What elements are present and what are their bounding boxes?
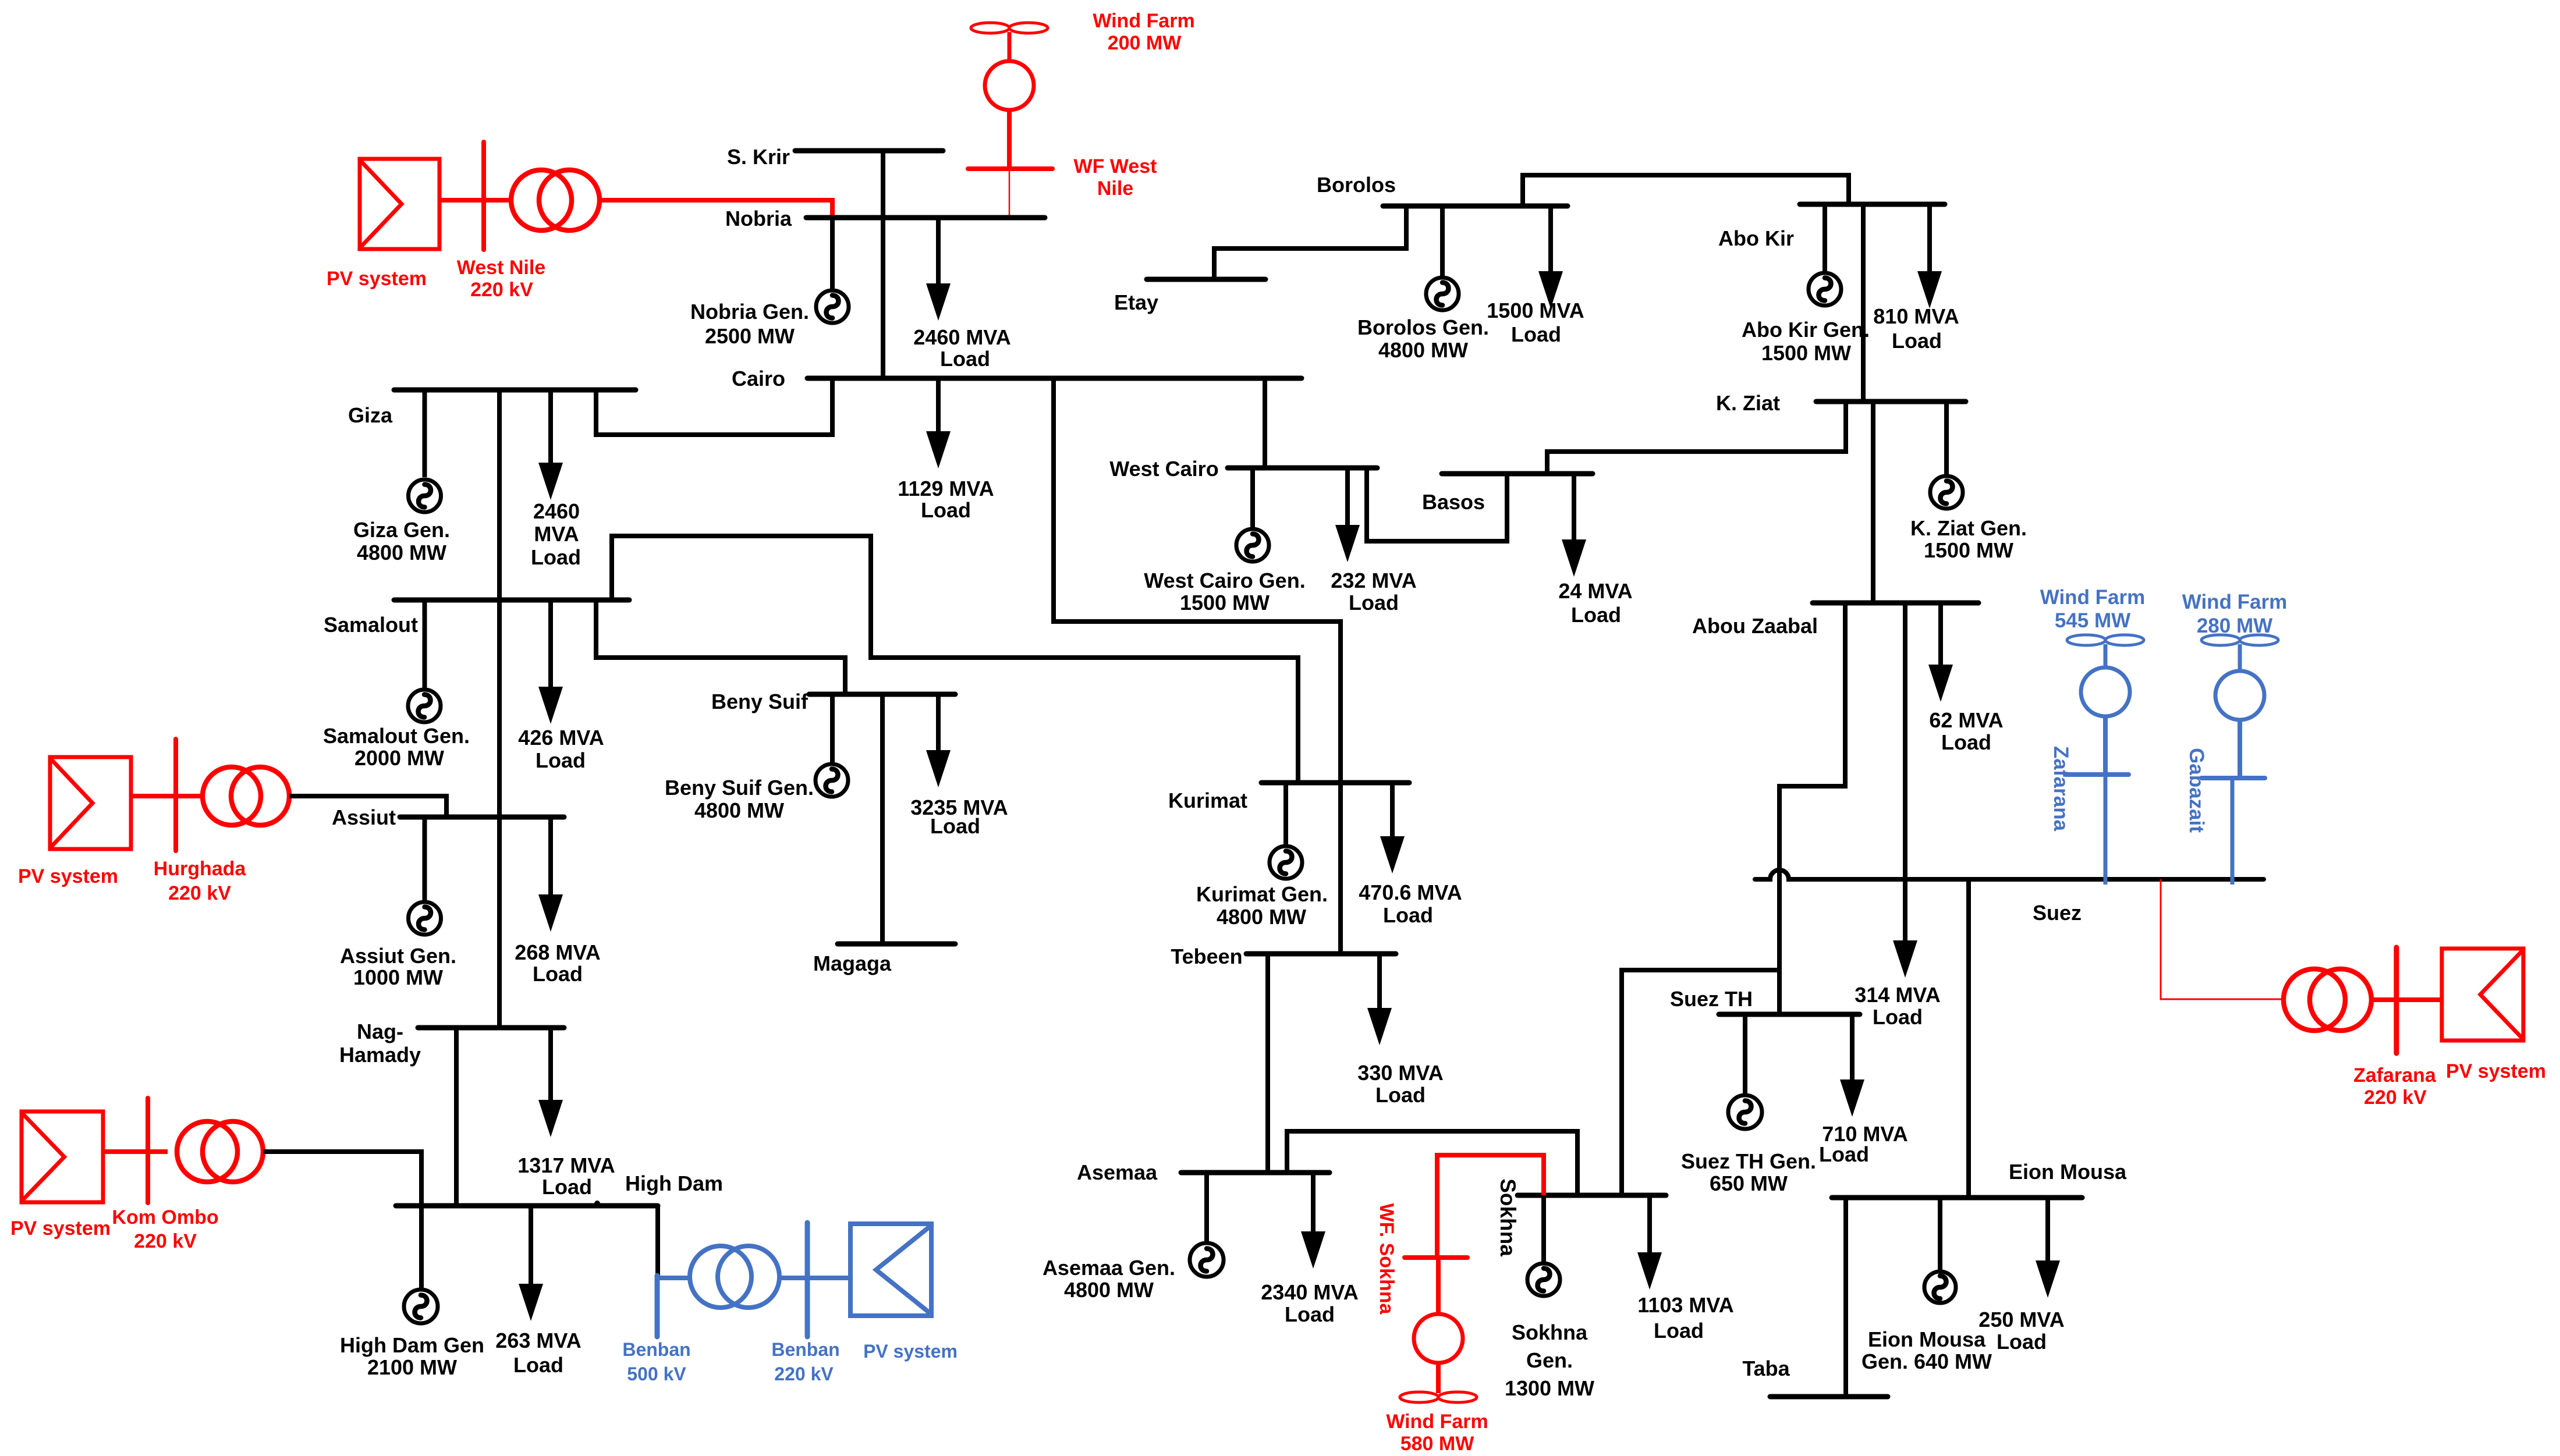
wire Zafarana to Suez bus xyxy=(2104,775,2108,885)
load arrow 2340 MVA (Asemaa) xyxy=(1301,1173,1325,1269)
svg-text:200 MW: 200 MW xyxy=(1108,32,1182,54)
svg-text:2460 MVA: 2460 MVA xyxy=(913,325,1010,349)
bus S. Krir xyxy=(795,148,943,154)
bus Suez xyxy=(1755,870,2264,879)
svg-text:Nag-: Nag- xyxy=(357,1020,403,1043)
load arrow 3235 MVA (Beny Suif) xyxy=(926,694,951,787)
wire High Dam bus to Benban xyxy=(655,1206,660,1277)
generator Suez TH Gen. xyxy=(1728,1095,1762,1129)
svg-text:2000 MW: 2000 MW xyxy=(354,746,444,770)
svg-text:220 kV: 220 kV xyxy=(470,279,533,301)
svg-text:Load: Load xyxy=(1819,1142,1869,1166)
svg-text:263 MVA: 263 MVA xyxy=(495,1329,581,1352)
transformer Hurghada xyxy=(203,767,289,825)
bus Kurimat xyxy=(1261,780,1409,786)
load arrow 1317 MVA (Nag-Hamady) xyxy=(538,1028,563,1137)
svg-text:2500 MW: 2500 MW xyxy=(705,324,795,348)
svg-text:Borolos: Borolos xyxy=(1317,173,1396,197)
load arrow 314 MVA (to Suez) xyxy=(1893,603,1917,978)
load arrow 470.6 MVA (Kurimat) xyxy=(1380,783,1405,873)
svg-text:Zafarana: Zafarana xyxy=(2050,746,2072,831)
generator Kurimat Gen. xyxy=(1270,846,1302,879)
bus Abou Zaabal xyxy=(1813,601,1978,606)
svg-text:Borolos Gen.: Borolos Gen. xyxy=(1357,315,1489,339)
load arrow 250 MVA (Eion Mousa) xyxy=(2036,1198,2060,1298)
svg-text:Abou Zaabal: Abou Zaabal xyxy=(1692,614,1818,638)
svg-text:Cairo: Cairo xyxy=(732,367,785,390)
svg-text:Etay: Etay xyxy=(1114,290,1158,314)
svg-text:330 MVA: 330 MVA xyxy=(1357,1061,1443,1085)
svg-text:Assiut: Assiut xyxy=(332,805,396,829)
svg-text:Taba: Taba xyxy=(1742,1356,1790,1380)
svg-text:Hamady: Hamady xyxy=(339,1043,421,1067)
bus Zafarana 220 kV xyxy=(2394,947,2399,1053)
generator Beny Suif Gen. xyxy=(815,764,848,797)
svg-text:Nobria Gen.: Nobria Gen. xyxy=(690,300,809,324)
generator Assiut Gen. xyxy=(409,902,441,935)
svg-text:1500 MW: 1500 MW xyxy=(1761,341,1851,365)
svg-text:4800 MW: 4800 MW xyxy=(357,541,446,564)
load arrow 330 MVA (Tebeen) xyxy=(1367,954,1392,1045)
svg-text:Nile: Nile xyxy=(1097,177,1133,200)
svg-text:Load: Load xyxy=(1892,329,1942,353)
svg-text:314 MVA: 314 MVA xyxy=(1855,983,1940,1007)
svg-text:Load: Load xyxy=(1511,322,1561,346)
transformer West Nile xyxy=(511,170,600,230)
wire Kurimat bus to Kurimat Gen. xyxy=(1283,783,1288,847)
svg-text:Benban: Benban xyxy=(622,1339,690,1360)
svg-text:West Cairo: West Cairo xyxy=(1109,457,1218,481)
wire Suez to Zafarana PV (thin red) xyxy=(2161,879,2283,999)
svg-text:Load: Load xyxy=(1383,903,1433,927)
generator West Cairo Gen. xyxy=(1236,529,1269,562)
generator K. Ziat Gen. xyxy=(1930,476,1963,509)
svg-text:Suez TH: Suez TH xyxy=(1670,987,1753,1011)
svg-text:Load: Load xyxy=(1349,591,1399,615)
svg-text:Wind Farm: Wind Farm xyxy=(2040,586,2146,609)
bus Suez TH xyxy=(1719,1012,1860,1017)
svg-text:Load: Load xyxy=(513,1353,563,1377)
svg-text:Gen. 640 MW: Gen. 640 MW xyxy=(1862,1350,1992,1373)
svg-text:24 MVA: 24 MVA xyxy=(1558,579,1632,603)
bus Samalout xyxy=(394,598,629,603)
wire K. Ziat to Basos xyxy=(1547,402,1846,474)
bus Asemaa xyxy=(1181,1170,1329,1176)
svg-text:High Dam Gen: High Dam Gen xyxy=(340,1333,484,1357)
wire Benban transformer to PV xyxy=(780,1276,850,1280)
svg-text:Load: Load xyxy=(1873,1005,1923,1029)
svg-text:650 MW: 650 MW xyxy=(1710,1171,1788,1195)
wire K. Ziat to Abou Zaabal xyxy=(1871,402,1875,603)
svg-text:1300 MW: 1300 MW xyxy=(1505,1376,1594,1400)
wire Borolos to Etay xyxy=(1214,206,1406,279)
bus Benban 500 kV xyxy=(655,1276,660,1337)
svg-text:Eion Mousa: Eion Mousa xyxy=(2009,1160,2127,1184)
wire Cairo to Giza bus xyxy=(596,378,832,435)
svg-text:Beny Suif: Beny Suif xyxy=(711,690,809,713)
wire junction Suez TH drop xyxy=(1777,970,1782,1014)
svg-text:Wind Farm: Wind Farm xyxy=(1386,1411,1488,1433)
svg-text:4800 MW: 4800 MW xyxy=(1064,1278,1154,1302)
svg-text:WF. Sokhna: WF. Sokhna xyxy=(1375,1203,1398,1315)
bus Eion Mousa xyxy=(1832,1195,2082,1201)
svg-text:Gabazait: Gabazait xyxy=(2185,748,2208,833)
svg-text:Load: Load xyxy=(1375,1083,1426,1107)
svg-text:500 kV: 500 kV xyxy=(627,1363,686,1384)
wire Abo Kir bus to Abo Kir Gen. xyxy=(1823,204,1827,273)
svg-text:K. Ziat Gen.: K. Ziat Gen. xyxy=(1910,516,2027,540)
wire Asemaa to Sokhna xyxy=(1287,1131,1577,1195)
bus Kom Ombo 220 kV xyxy=(146,1098,150,1203)
wire PV to West Nile bus xyxy=(439,198,511,203)
wire Eion Mousa to Taba xyxy=(1843,1198,1848,1397)
wire Samalout lower to Beny Suif xyxy=(596,600,845,694)
wire Borolos to Abo Kir (top) xyxy=(1523,175,1849,206)
svg-text:Magaga: Magaga xyxy=(813,951,892,975)
svg-text:Wind Farm: Wind Farm xyxy=(1093,10,1194,32)
svg-text:Asemaa: Asemaa xyxy=(1077,1160,1158,1184)
wire WF Sokhna to Sokhna bus xyxy=(1437,1155,1544,1258)
generator Borolos Gen. xyxy=(1426,278,1459,310)
bus West Nile 220 kV xyxy=(481,142,486,250)
svg-text:Load: Load xyxy=(1654,1319,1704,1343)
wire WF West Nile to Nobria bus (thin) xyxy=(1009,171,1010,219)
wire Cairo to Kurimat xyxy=(1054,378,1341,954)
svg-text:Load: Load xyxy=(531,545,581,569)
svg-text:Eion Mousa: Eion Mousa xyxy=(1868,1327,1986,1351)
wire Kom Ombo PV to bus xyxy=(103,1149,168,1154)
bus Etay xyxy=(1147,277,1265,282)
load arrow 2460 MVA (Giza) xyxy=(538,390,563,500)
wire Suez to Eion Mousa xyxy=(1966,879,1971,1198)
load arrow 1500 MVA (Borolos) xyxy=(1538,206,1563,308)
svg-text:470.6 MVA: 470.6 MVA xyxy=(1359,880,1462,904)
load arrow 268 MVA (Assiut) xyxy=(538,817,563,932)
svg-text:Suez TH Gen.: Suez TH Gen. xyxy=(1681,1149,1816,1173)
svg-text:Samalout: Samalout xyxy=(324,613,418,637)
PV system (Kom Ombo) inverter block xyxy=(22,1111,103,1202)
wire Beny Suif bus to Beny Suif Gen. xyxy=(830,694,835,764)
svg-text:2460: 2460 xyxy=(533,499,580,523)
svg-text:4800 MW: 4800 MW xyxy=(694,798,784,822)
svg-text:Abo Kir Gen.: Abo Kir Gen. xyxy=(1742,318,1870,342)
wire Benban 500kV bus to transformer xyxy=(657,1276,689,1280)
wire Sokhna bus to Sokhna Gen. xyxy=(1541,1195,1546,1263)
svg-text:Load: Load xyxy=(1571,603,1621,627)
load arrow 2460 MVA (Nobria) xyxy=(926,218,951,321)
svg-text:PV system: PV system xyxy=(863,1341,958,1362)
svg-text:Load: Load xyxy=(1997,1330,2047,1354)
wire Borolos bus to Borolos Gen. xyxy=(1440,206,1445,278)
svg-text:PV system: PV system xyxy=(327,268,427,290)
svg-text:232 MVA: 232 MVA xyxy=(1331,569,1416,592)
svg-text:S. Krir: S. Krir xyxy=(727,145,790,169)
bus Giza xyxy=(394,388,636,393)
svg-text:Beny Suif Gen.: Beny Suif Gen. xyxy=(665,776,814,800)
load arrow 710 MVA (Suez TH) xyxy=(1840,1014,1864,1117)
wire Asemaa bus to Asemaa Gen. xyxy=(1204,1173,1209,1243)
wire Abo Kir to K. Ziat xyxy=(1861,204,1866,402)
svg-text:West Nile: West Nile xyxy=(457,257,545,279)
wind farm Gabazait xyxy=(2201,635,2278,778)
generator Samalout Gen. xyxy=(408,690,441,722)
bus Benban 220 kV xyxy=(805,1223,810,1337)
wire K. Ziat bus to K. Ziat Gen. xyxy=(1944,402,1949,476)
svg-text:220 kV: 220 kV xyxy=(774,1363,834,1384)
load arrow 1103 MVA (Sokhna) xyxy=(1637,1195,1662,1290)
PV system (Hurghada) inverter block xyxy=(50,757,131,849)
svg-text:545 MW: 545 MW xyxy=(2055,609,2130,632)
wire Hurghada transformer to Assiut bus xyxy=(289,796,446,817)
svg-text:220 kV: 220 kV xyxy=(168,882,231,904)
wire Eion Mousa bus to Eion Mousa Gen. xyxy=(1938,1198,1942,1272)
wire S. Krir to Cairo xyxy=(881,151,885,378)
wire Giza-Samalout-Assiut-NagHamady trunk xyxy=(497,390,502,1028)
wire Zafarana transformer to PV xyxy=(2371,997,2442,1002)
load arrow 62 MVA (Abou Zaabal) xyxy=(1928,603,1953,702)
svg-text:250 MVA: 250 MVA xyxy=(1978,1308,2064,1331)
svg-text:K. Ziat: K. Ziat xyxy=(1716,391,1780,415)
generator Giza Gen. xyxy=(409,480,441,512)
svg-text:1103 MVA: 1103 MVA xyxy=(1637,1293,1733,1317)
wire West Nile transformer to Nobria bus xyxy=(600,200,832,216)
bus Taba xyxy=(1770,1394,1888,1400)
wire Nag-Hamady to High Dam xyxy=(454,1028,459,1206)
wire High Dam bus to High Dam Gen xyxy=(419,1206,424,1290)
svg-text:Giza: Giza xyxy=(348,403,393,427)
svg-text:PV system: PV system xyxy=(18,865,118,887)
bus Basos xyxy=(1442,471,1593,477)
svg-text:Load: Load xyxy=(542,1175,592,1199)
transformer Benban xyxy=(690,1246,779,1308)
bus Nag-Hamady xyxy=(418,1025,564,1031)
svg-text:Load: Load xyxy=(930,814,980,838)
svg-text:Abo Kir: Abo Kir xyxy=(1718,226,1794,250)
wire Giza bus to Giza Gen. xyxy=(423,390,427,477)
svg-text:Hurghada: Hurghada xyxy=(154,858,247,880)
wire Hurghada PV to bus xyxy=(131,794,202,798)
svg-text:West Cairo Gen.: West Cairo Gen. xyxy=(1144,569,1305,592)
wire Abou Zaabal to Suez TH and Sokhna xyxy=(1622,603,1845,1195)
svg-text:Kom Ombo: Kom Ombo xyxy=(112,1206,218,1228)
wire Samalout bus to Samalout Gen. xyxy=(423,600,427,689)
generator Asemaa Gen. xyxy=(1190,1243,1224,1277)
svg-text:Load: Load xyxy=(533,962,583,986)
wire West Cairo bus to West Cairo Gen. xyxy=(1250,468,1255,529)
svg-text:Wind Farm: Wind Farm xyxy=(2182,591,2288,613)
wire WF Sokhna bar to turbine xyxy=(1436,1258,1441,1314)
svg-text:580 MW: 580 MW xyxy=(1400,1433,1474,1455)
svg-text:Kurimat Gen.: Kurimat Gen. xyxy=(1196,882,1328,906)
wire Gabazait to Suez bus xyxy=(2231,778,2235,885)
generator Abo Kir Gen. xyxy=(1809,273,1841,306)
junction nub High Dam bus xyxy=(594,1201,600,1206)
svg-text:Load: Load xyxy=(940,347,990,371)
PV system (Zafarana) inverter block xyxy=(2442,949,2523,1040)
wind farm WF West Nile xyxy=(968,23,1052,169)
svg-text:426 MVA: 426 MVA xyxy=(518,726,604,750)
svg-text:810 MVA: 810 MVA xyxy=(1873,304,1959,328)
bus Hurghada 220 kV xyxy=(173,739,178,851)
svg-text:4800 MW: 4800 MW xyxy=(1378,338,1468,362)
bus WF Sokhna bar xyxy=(1405,1255,1467,1260)
transformer Zafarana xyxy=(2284,969,2371,1031)
generator Nobria Gen. xyxy=(816,290,849,323)
generator High Dam Gen xyxy=(404,1290,438,1323)
svg-text:Kurimat: Kurimat xyxy=(1168,789,1247,812)
svg-text:1317 MVA: 1317 MVA xyxy=(517,1153,615,1177)
bus Cairo xyxy=(807,376,1302,381)
bus High Dam xyxy=(396,1203,658,1209)
bus Tebeen xyxy=(1246,951,1396,957)
svg-text:Giza Gen.: Giza Gen. xyxy=(353,518,450,542)
svg-text:Basos: Basos xyxy=(1422,490,1485,514)
svg-text:Load: Load xyxy=(921,498,971,522)
svg-text:268 MVA: 268 MVA xyxy=(515,940,600,964)
svg-text:Assiut Gen.: Assiut Gen. xyxy=(340,944,456,968)
load arrow 1129 MVA (Cairo) xyxy=(926,378,951,468)
svg-text:1129 MVA: 1129 MVA xyxy=(898,477,994,500)
wire Samalout upper to Kurimat xyxy=(612,536,1298,783)
generator Sokhna Gen. xyxy=(1527,1263,1560,1296)
generator Eion Mousa Gen. xyxy=(1924,1272,1956,1303)
bus Nobria xyxy=(806,215,1045,221)
bus Assiut xyxy=(400,815,564,820)
svg-text:220 kV: 220 kV xyxy=(2364,1086,2427,1109)
load arrow 24 MVA (Basos) xyxy=(1562,474,1586,577)
wind turbine WF Sokhna circle xyxy=(1414,1314,1463,1363)
svg-text:62 MVA: 62 MVA xyxy=(1929,708,2003,732)
PV system (Benban) inverter block xyxy=(850,1224,931,1316)
svg-text:Samalout Gen.: Samalout Gen. xyxy=(323,724,470,748)
svg-text:High Dam: High Dam xyxy=(625,1171,723,1195)
svg-text:Sokhna: Sokhna xyxy=(1512,1320,1588,1344)
svg-text:Load: Load xyxy=(1285,1302,1335,1326)
svg-text:MVA: MVA xyxy=(534,522,579,546)
svg-text:Tebeen: Tebeen xyxy=(1171,944,1242,968)
svg-text:1000 MW: 1000 MW xyxy=(353,965,443,989)
svg-text:PV system: PV system xyxy=(10,1217,111,1240)
PV system (West Nile) inverter block xyxy=(360,159,439,249)
svg-text:WF West: WF West xyxy=(1074,155,1157,177)
wire Kom Ombo transformer to High Dam bus xyxy=(263,1152,421,1206)
wire Assiut bus to Assiut Gen. xyxy=(423,817,427,902)
wire WF Sokhna circle to rotor xyxy=(1436,1363,1441,1393)
svg-text:Suez: Suez xyxy=(2033,901,2082,925)
svg-text:2340 MVA: 2340 MVA xyxy=(1261,1280,1358,1304)
svg-text:2100 MW: 2100 MW xyxy=(367,1355,457,1379)
svg-text:1500 MVA: 1500 MVA xyxy=(1487,299,1584,322)
svg-text:1500 MW: 1500 MW xyxy=(1924,538,2013,562)
bus West Cairo xyxy=(1228,466,1377,471)
rotor WF Sokhna xyxy=(1400,1392,1477,1402)
wire Cairo to West Cairo bus xyxy=(1263,378,1267,468)
bus Abo Kir xyxy=(1800,202,1945,207)
wind farm Zafarana xyxy=(2066,635,2144,775)
svg-text:PV system: PV system xyxy=(2446,1060,2546,1082)
bus Magaga xyxy=(838,942,955,947)
bus Borolos xyxy=(1383,204,1568,209)
wire Tebeen to Asemaa xyxy=(1265,954,1270,1173)
bus Sokhna xyxy=(1517,1193,1666,1198)
svg-text:Sokhna: Sokhna xyxy=(1496,1178,1520,1256)
transformer Kom Ombo xyxy=(177,1121,263,1182)
svg-text:220 kV: 220 kV xyxy=(134,1230,197,1252)
load arrow 232 MVA (West Cairo) xyxy=(1335,468,1360,562)
load arrow 263 MVA (High Dam) xyxy=(519,1206,543,1321)
wire Nobria bus to Nobria Gen. xyxy=(830,218,835,289)
svg-text:Asemaa Gen.: Asemaa Gen. xyxy=(1043,1256,1175,1280)
svg-text:Load: Load xyxy=(1941,730,1991,754)
bus K. Ziat xyxy=(1816,399,1966,404)
bus Beny Suif xyxy=(809,692,955,697)
svg-text:Nobria: Nobria xyxy=(725,207,792,230)
svg-text:1500 MW: 1500 MW xyxy=(1180,591,1270,615)
load arrow 810 MVA (Abo Kir) xyxy=(1917,204,1942,308)
svg-text:Zafarana: Zafarana xyxy=(2353,1064,2437,1086)
svg-text:4800 MW: 4800 MW xyxy=(1217,905,1306,929)
load arrow 426 MVA (Samalout) xyxy=(538,600,563,724)
svg-text:Load: Load xyxy=(536,748,586,772)
wire Suez TH bus to Suez TH Gen. xyxy=(1743,1014,1747,1095)
wire West Cairo to Basos xyxy=(1367,468,1507,541)
svg-text:Benban: Benban xyxy=(771,1339,839,1360)
svg-text:Gen.: Gen. xyxy=(1526,1348,1573,1372)
wire Beny Suif to Magaga xyxy=(880,694,885,944)
